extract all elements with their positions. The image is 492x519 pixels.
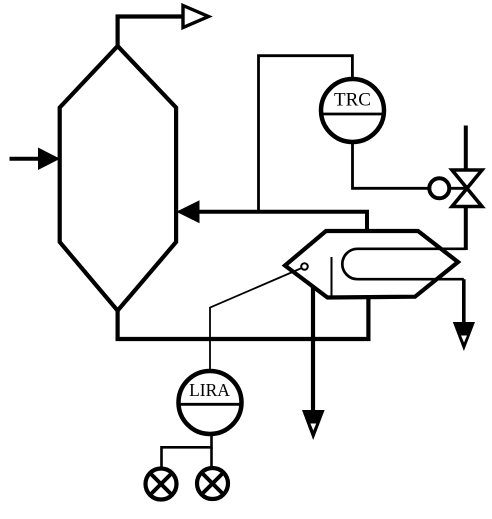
- weir baffle inside reboiler: [331, 257, 333, 297]
- column vessel (distillation column hexagon): [60, 46, 176, 311]
- bottoms product arrowhead: [302, 410, 325, 440]
- svg-text:LIRA: LIRA: [189, 380, 230, 400]
- wire TRC temperature sensing signal line: [259, 56, 353, 212]
- wire vapour return line from reboiler to column: [197, 212, 367, 233]
- wire LIRA output signal branch: [162, 434, 212, 467]
- control valve body V1: [452, 170, 482, 207]
- wire overhead vapour pipe: [118, 17, 184, 47]
- wire steam supply pipe above valve: [464, 126, 468, 172]
- wire steam pipe from valve down to heating tube: [464, 206, 468, 251]
- reboiler vessel (kettle reboiler hexagon): [285, 231, 458, 298]
- wire column bottoms pipe to reboiler: [118, 295, 369, 339]
- feed inlet solid arrowhead: [38, 148, 60, 171]
- overhead outlet open arrowhead: [183, 6, 209, 28]
- heating U-tube steam chest: [342, 249, 466, 279]
- wire feed line: [10, 157, 41, 161]
- wire condensate outlet line: [462, 279, 466, 325]
- alarm lamp L2 (crossed circle): [197, 468, 228, 499]
- wire TRC output signal to valve: [353, 142, 429, 188]
- level tap nozzle circle: [301, 263, 308, 270]
- wire bottoms product drain line: [311, 287, 315, 412]
- svg-text:TRC: TRC: [334, 90, 371, 111]
- vapour return solid arrowhead: [176, 200, 199, 223]
- op LIRA instrument circle U2: [179, 371, 242, 434]
- valve actuator circle: [429, 178, 466, 198]
- wire level sensing line to LIRA: [210, 268, 302, 369]
- op TRC instrument circle U1: [321, 79, 384, 142]
- condensate outlet arrowhead: [453, 322, 475, 351]
- alarm lamp L1 (crossed circle): [146, 469, 177, 500]
